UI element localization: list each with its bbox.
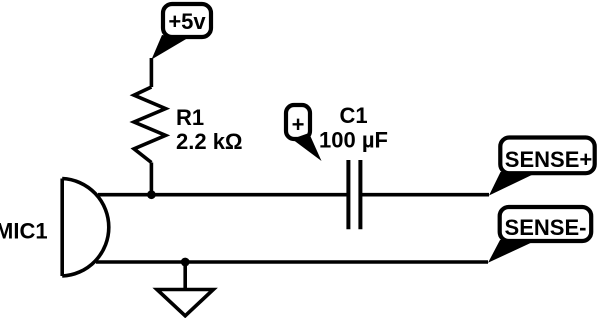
- wire capacitor to SENSE+: [360, 193, 489, 197]
- wire mic top to capacitor: [98, 193, 348, 197]
- svg-text:+: +: [292, 112, 305, 137]
- capacitor C1 plates: [348, 160, 360, 229]
- net flag SENSE- tail: [488, 240, 537, 263]
- svg-text:2.2 kΩ: 2.2 kΩ: [176, 129, 243, 154]
- net flag SENSE- box: [500, 207, 592, 241]
- svg-text:C1: C1: [339, 103, 367, 128]
- net flag +5v box: [163, 4, 211, 37]
- svg-text:R1: R1: [176, 105, 204, 130]
- net flag SENSE+ tail: [489, 172, 538, 196]
- wire +5v to resistor: [150, 58, 154, 87]
- wire to ground: [183, 262, 187, 290]
- ground symbol: [157, 290, 213, 316]
- svg-text:100 µF: 100 µF: [319, 128, 388, 153]
- svg-text:MIC1: MIC1: [0, 219, 48, 244]
- net flag +5v tail: [152, 35, 188, 60]
- node junction bottom (ground stub): [181, 258, 190, 267]
- wire mic bottom rail: [96, 260, 488, 264]
- node junction top (resistor/top wire): [147, 190, 156, 199]
- polarity + callout box: [286, 105, 310, 139]
- resistor R1: [134, 87, 166, 163]
- svg-text:+5v: +5v: [168, 9, 206, 34]
- polarity + callout tail: [292, 133, 322, 161]
- svg-text:SENSE+: SENSE+: [505, 147, 592, 172]
- net flag SENSE+ box: [500, 138, 594, 174]
- svg-text:SENSE-: SENSE-: [505, 215, 587, 240]
- microphone MIC1: [62, 179, 109, 277]
- wire resistor to top rail: [150, 163, 154, 195]
